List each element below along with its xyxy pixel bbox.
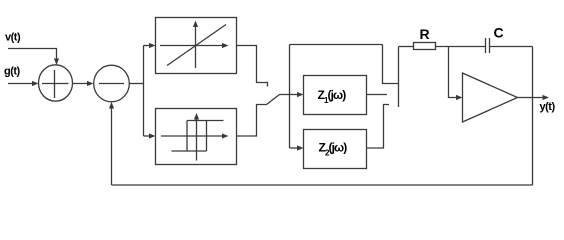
summer S1 plus sign vertical	[54, 70, 56, 98]
wire direct path jog down	[383, 45, 399, 84]
capacitor C right plate	[489, 38, 491, 53]
svg-text:v(t): v(t)	[5, 32, 21, 44]
wire SW1 common to Z1 input	[280, 94, 301, 96]
wire branch vertical	[143, 46, 145, 137]
wire N1 output to switch SW1 upper contact	[237, 46, 268, 87]
N2 hysteresis loop left vertical	[186, 121, 188, 152]
wire S1 to S2	[73, 83, 91, 85]
wire v(t) to summer S1 top	[8, 49, 57, 60]
wire direct path along top	[290, 44, 383, 46]
N1 linear characteristic diagonal	[167, 25, 226, 66]
wire arrowhead into N1	[149, 43, 156, 48]
nonlinearity N1 box (linear characteristic)	[156, 18, 237, 74]
wire arrowhead into S1 left	[32, 81, 39, 86]
wire arrowhead into Z2	[297, 145, 304, 150]
svg-text:Z1(jω): Z1(jω)	[318, 88, 347, 105]
wire pole to resistor R	[399, 46, 414, 48]
N1 horizontal axis	[160, 45, 225, 47]
summer S2 minus sign	[99, 83, 124, 85]
wire op-amp output to y(t)	[518, 97, 546, 99]
node junction vertical at common	[289, 45, 291, 149]
wire arrowhead into op-amp	[456, 95, 463, 100]
summer S1 circle	[39, 65, 73, 101]
svg-text:C: C	[494, 25, 504, 41]
N2 hysteresis loop upper line	[187, 120, 224, 122]
wire feedback right vertical	[532, 47, 534, 186]
wire N2 output to switch SW1 lower contact	[237, 105, 267, 137]
wire Z2 output to switch SW2 lower contact	[367, 105, 390, 149]
N1 vertical axis arrowhead	[193, 21, 198, 28]
wire C to output node	[490, 46, 533, 48]
op-amp U1 triangle	[463, 73, 518, 122]
wire g(t) to summer S1 left	[8, 83, 33, 85]
N2 vertical axis arrowhead	[194, 113, 199, 120]
wire Z1 output to switch SW2 upper contact	[367, 94, 388, 96]
switch SW2 pole line	[398, 47, 400, 108]
wire junction to Z2 input	[290, 147, 301, 149]
wire arrowhead into S2 bottom	[109, 102, 114, 109]
wire arrowhead into S1 top	[54, 59, 59, 66]
svg-text:R: R	[420, 26, 430, 42]
impedance block Z2	[304, 130, 367, 169]
svg-text:g(t): g(t)	[4, 66, 21, 78]
resistor R body	[414, 43, 436, 50]
switch SW1 arm (closed on N2 contact)	[267, 95, 280, 105]
wire feedback bottom horizontal	[112, 184, 533, 186]
wire output arrowhead	[543, 95, 550, 100]
impedance block Z1	[304, 76, 367, 115]
summer S2 circle	[94, 65, 130, 102]
wire arrowhead into S2 left	[87, 81, 94, 86]
wire arrowhead into Z1	[297, 92, 304, 97]
N2 horizontal axis	[161, 135, 225, 137]
wire R to node A	[436, 46, 486, 48]
wire feedback left vertical to S2	[111, 107, 113, 186]
N1 horizontal axis arrowhead	[222, 43, 229, 48]
wire S2 output to branch node	[130, 83, 144, 85]
svg-text:Z2(jω): Z2(jω)	[319, 141, 348, 158]
N2 hysteresis loop right vertical	[206, 121, 208, 152]
svg-text:y(t): y(t)	[540, 101, 556, 113]
N2 horizontal axis arrowhead	[222, 133, 229, 138]
capacitor C left plate	[485, 38, 487, 53]
N1 vertical axis	[195, 24, 197, 68]
summer S1 plus sign horizontal	[42, 83, 69, 85]
wire branch to nonlinearity N2	[144, 135, 153, 137]
N2 hysteresis loop lower line	[172, 150, 207, 152]
nonlinearity N2 box (hysteresis characteristic)	[156, 109, 237, 165]
wire node A down to op-amp input	[449, 47, 460, 98]
N2 vertical axis	[196, 117, 198, 161]
wire arrowhead into N2	[149, 133, 156, 138]
wire branch to nonlinearity N1	[144, 45, 153, 47]
